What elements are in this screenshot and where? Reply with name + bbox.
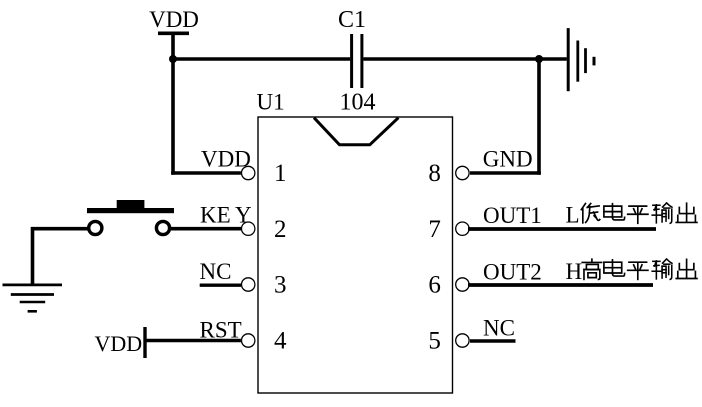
wire VDD vertical to pin 1 row: [171, 33, 175, 175]
push button S1 cap: [117, 200, 145, 208]
svg-text:3: 3: [274, 272, 287, 299]
wire NC stub (pin 3): [200, 284, 241, 287]
wire NC stub (pin 5): [470, 339, 516, 343]
svg-text:OUT1: OUT1: [483, 203, 542, 228]
pin 5 circle: [456, 334, 469, 347]
wire GND vertical down to pin 8 row: [537, 57, 541, 175]
wire pin 1 to VDD vertical: [171, 171, 241, 175]
push button S1 bar: [87, 208, 174, 213]
node junction dot at GND rail: [535, 55, 543, 63]
svg-text:GND: GND: [483, 147, 533, 172]
ground (top right): [567, 28, 570, 91]
wire top rail right segment to ground: [363, 57, 566, 61]
svg-text:C1: C1: [338, 7, 366, 33]
wire OUT2 (pin 6): [468, 283, 653, 287]
svg-text:NC: NC: [200, 259, 232, 284]
svg-text:VDD: VDD: [149, 7, 199, 32]
net label 高电平输出 (OUT2): [582, 259, 601, 279]
svg-text:2: 2: [274, 216, 287, 243]
IC U1 body: [258, 117, 453, 393]
wire OUT1 (pin 7): [468, 227, 656, 231]
pin 3 circle: [242, 278, 255, 291]
ground (bottom left): [3, 283, 63, 286]
svg-text:VDD: VDD: [95, 331, 143, 356]
pin 1 circle: [242, 166, 255, 179]
node junction dot at VDD rail: [169, 55, 177, 63]
svg-text:L: L: [566, 203, 580, 228]
svg-text:4: 4: [274, 327, 287, 354]
svg-text:1: 1: [274, 160, 287, 187]
pin 4 circle: [242, 334, 255, 347]
svg-text:OUT2: OUT2: [483, 259, 542, 284]
wire RST to pin 4: [146, 339, 241, 343]
svg-text:104: 104: [340, 90, 376, 116]
IC U1 notch: [314, 118, 398, 145]
svg-text:NC: NC: [483, 316, 515, 341]
push button S1 left terminal: [89, 221, 102, 234]
svg-text:Y: Y: [235, 202, 252, 227]
wire button right terminal to pin 2: [171, 227, 241, 231]
svg-text:8: 8: [428, 160, 441, 187]
wire pin 8 to GND vertical: [470, 171, 541, 175]
svg-text:H: H: [566, 259, 583, 284]
svg-text:KE: KE: [200, 202, 231, 227]
wire button left terminal to ground: [33, 229, 88, 285]
push button S1 right terminal: [156, 221, 169, 234]
pin 8 circle: [456, 166, 469, 179]
svg-text:7: 7: [428, 216, 441, 243]
svg-text:5: 5: [428, 327, 441, 354]
pin 6 circle: [456, 278, 469, 291]
net label 低电平输出 (OUT1): [581, 203, 599, 222]
svg-text:6: 6: [428, 272, 441, 299]
wire top rail left segment to C1: [171, 57, 350, 61]
svg-text:VDD: VDD: [201, 147, 251, 172]
svg-text:U1: U1: [257, 90, 285, 115]
pin 7 circle: [456, 222, 469, 235]
pin 2 circle: [242, 222, 255, 235]
